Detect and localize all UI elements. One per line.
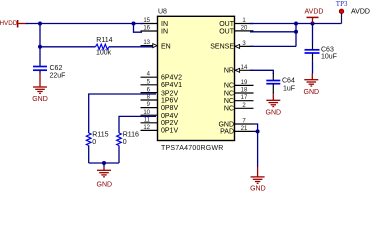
svg-text:100k: 100k <box>96 49 112 56</box>
svg-text:10: 10 <box>143 110 150 116</box>
pin 18 NC <box>224 88 254 98</box>
wire vertical bus at 296 <box>295 24 297 47</box>
svg-text:AVDD: AVDD <box>351 8 370 15</box>
wire C62 bottom lead <box>39 70 41 73</box>
wire C64 bottom lead <box>272 84 274 95</box>
pin 9 0P8V <box>141 102 179 112</box>
pin 5 6P4V1 <box>141 79 183 89</box>
wire C63 bottom lead <box>312 53 314 60</box>
wire PAD pin21 to vertical <box>254 130 258 132</box>
resistor R116 0 <box>117 132 139 147</box>
wire R115 bottom <box>88 146 90 164</box>
pin 19 NC <box>224 80 254 90</box>
svg-text:0: 0 <box>92 139 96 146</box>
svg-text:OUT: OUT <box>219 21 235 28</box>
IC U8 TPS7A4700RGWR (regulator) <box>158 8 235 152</box>
node junction (296,23.5) <box>294 22 298 26</box>
svg-text:19: 19 <box>241 80 248 86</box>
power flag HVDD <box>0 20 27 28</box>
svg-text:15: 15 <box>143 18 150 24</box>
node junction (312.5,23.5) <box>311 22 315 26</box>
pin 12 0P1V <box>141 125 179 135</box>
pin 3 SENSE <box>210 41 253 51</box>
svg-text:C64: C64 <box>282 77 295 84</box>
svg-text:22uF: 22uF <box>50 72 66 79</box>
svg-text:HVDD: HVDD <box>0 20 18 27</box>
svg-text:GND: GND <box>250 186 266 193</box>
svg-text:NC: NC <box>224 106 234 113</box>
svg-text:NR: NR <box>224 68 234 75</box>
wire vertical drop to C62/EN <box>39 24 41 63</box>
svg-text:GND: GND <box>304 89 320 96</box>
svg-text:1uF: 1uF <box>283 85 295 92</box>
svg-text:GND: GND <box>32 96 48 103</box>
ground GND under R115/R116 <box>97 167 113 189</box>
svg-text:PAD: PAD <box>220 129 234 136</box>
svg-text:NC: NC <box>224 90 234 97</box>
wire vertical to pin16 <box>134 24 143 33</box>
pin 7 GND <box>218 119 253 129</box>
pin 11 0P2V <box>141 117 179 127</box>
wire 3P2V net: pin6 left then down <box>89 94 156 133</box>
pin 10 0P4V <box>141 110 179 120</box>
svg-text:R114: R114 <box>96 37 112 44</box>
pin 2 NC <box>224 103 254 113</box>
svg-text:1P6V: 1P6V <box>161 97 178 104</box>
ground GND under PAD <box>250 167 266 193</box>
wire stub to ground <box>103 163 105 167</box>
svg-text:18: 18 <box>241 88 248 94</box>
pin 20 OUT <box>219 26 253 36</box>
wire GND pin7 to vertical <box>254 124 258 167</box>
pin 16 IN <box>141 26 169 36</box>
svg-text:GND: GND <box>266 109 282 116</box>
capacitor C62 22uF <box>33 65 65 80</box>
wire NR net to C64 <box>250 70 273 74</box>
svg-text:R116: R116 <box>123 132 139 139</box>
svg-text:13: 13 <box>143 40 150 46</box>
svg-text:TP3: TP3 <box>336 0 348 8</box>
pin 4 6P4V2 <box>141 72 183 82</box>
svg-text:GND: GND <box>97 181 113 188</box>
wire HVDD to IN pin15 <box>26 23 143 25</box>
wire OUT pin1 net to TP3 <box>250 23 342 25</box>
svg-text:10uF: 10uF <box>321 54 337 61</box>
svg-text:SENSE: SENSE <box>210 44 234 51</box>
wire EN net left segment <box>40 46 95 48</box>
svg-text:IN: IN <box>161 29 168 36</box>
svg-text:EN: EN <box>161 44 171 51</box>
ground GND under C62 <box>32 74 48 103</box>
power flag AVDD <box>305 9 324 24</box>
svg-text:0P4V: 0P4V <box>161 113 178 120</box>
svg-text:11: 11 <box>144 117 151 123</box>
svg-text:20: 20 <box>241 26 248 32</box>
pin 13 EN <box>141 40 171 50</box>
node junction (40,46.4) <box>38 45 42 49</box>
svg-text:NC: NC <box>224 98 234 105</box>
node junction (257.6,131.4) <box>256 129 260 133</box>
wire 0P4V net: pin10 left then down <box>119 116 156 133</box>
node junction (104,163) <box>102 161 106 165</box>
capacitor C64 1uF <box>266 77 295 92</box>
svg-text:0P1V: 0P1V <box>161 128 178 135</box>
pin 6 3P2V <box>141 88 179 98</box>
svg-text:16: 16 <box>143 26 150 32</box>
svg-text:AVDD: AVDD <box>305 9 324 16</box>
svg-text:12: 12 <box>143 125 150 131</box>
resistor R114 100k <box>95 37 112 56</box>
pin 14 NR <box>224 65 254 75</box>
svg-text:0P8V: 0P8V <box>161 105 178 112</box>
wire SENSE net <box>250 45 296 47</box>
svg-text:TPS7A4700RGWR: TPS7A4700RGWR <box>161 145 224 152</box>
ground GND under C63 <box>304 74 320 96</box>
wire C63 top lead <box>312 24 314 45</box>
test point TP3 <box>336 0 370 24</box>
node junction (296,31.2) <box>294 30 298 34</box>
wire OUT pin20 net <box>250 31 296 33</box>
svg-text:C62: C62 <box>50 65 63 72</box>
wire bottom bus between R115/R116 <box>89 162 119 164</box>
capacitor C63 10uF <box>305 47 337 61</box>
svg-text:0: 0 <box>123 139 127 146</box>
pin 8 1P6V <box>141 95 179 105</box>
svg-text:0P2V: 0P2V <box>161 120 178 127</box>
resistor R115 0 <box>86 132 108 147</box>
svg-text:17: 17 <box>241 95 248 101</box>
pin 17 NC <box>224 95 254 105</box>
svg-text:NC: NC <box>224 83 234 90</box>
ground GND under C64 <box>266 94 282 116</box>
svg-text:3P2V: 3P2V <box>161 90 178 97</box>
node junction (40,23.5) <box>38 22 42 26</box>
node junction (133.5,23.5) <box>132 22 136 26</box>
wire R116 bottom <box>118 146 120 164</box>
pin 15 IN <box>141 18 169 28</box>
svg-text:OUT: OUT <box>219 29 235 36</box>
pin 1 OUT <box>219 18 253 28</box>
svg-text:21: 21 <box>241 126 248 132</box>
svg-text:U8: U8 <box>158 8 167 15</box>
svg-text:R115: R115 <box>92 132 108 139</box>
svg-text:6P4V2: 6P4V2 <box>161 75 182 82</box>
pin 21 PAD <box>220 126 253 136</box>
wire R114 to EN pin <box>109 46 153 48</box>
svg-text:GND: GND <box>218 121 234 128</box>
svg-text:6P4V1: 6P4V1 <box>161 82 182 89</box>
svg-text:IN: IN <box>161 21 168 28</box>
svg-text:14: 14 <box>241 65 248 71</box>
